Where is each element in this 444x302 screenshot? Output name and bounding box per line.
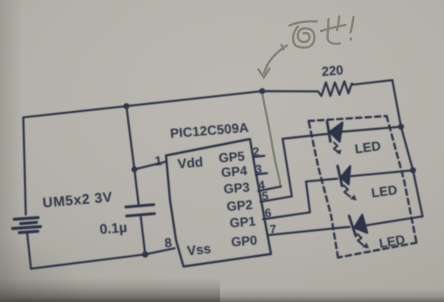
handwriting: kana せ: [321, 17, 346, 44]
battery B1 UM5x2 plates: [13, 218, 41, 233]
pencil correction line down to pin 4: [263, 95, 281, 186]
svg-text:GP1: GP1: [229, 213, 256, 230]
wire: pin 1 stub: [134, 162, 166, 170]
wire: battery bottom to bottom-left corner: [27, 234, 31, 269]
LED D3: [349, 216, 356, 236]
pin 5 stub wire to LED1: [261, 141, 292, 202]
wire: LED3 row: [346, 226, 350, 228]
dashed LED box: [309, 116, 387, 121]
svg-text:220: 220: [321, 62, 344, 79]
svg-text:GP3: GP3: [223, 179, 250, 196]
wire: LED1 row: [283, 134, 329, 141]
pin 2 stub: [254, 156, 265, 157]
wire: capacitor bottom to ground rail: [141, 217, 145, 254]
wire: bottom rail to Vss pin 8: [31, 248, 175, 268]
svg-text:GP2: GP2: [226, 197, 253, 214]
LED D1: [327, 122, 330, 142]
svg-text:GP4: GP4: [221, 163, 249, 180]
LED D2: [338, 166, 343, 186]
pin 6 stub wire to LED2: [263, 182, 310, 220]
wire: capacitor branch vertical: [126, 106, 138, 204]
handwriting: kanji 直: [282, 21, 318, 49]
junction dots: [123, 103, 129, 109]
capacitor C1 plates: [126, 205, 155, 216]
wire: left vertical down to battery: [23, 117, 26, 214]
IC U1 PIC12C509A body: [166, 139, 271, 267]
wire: top rail from top-left corner to resistor: [23, 91, 318, 117]
pin 3 stub: [256, 173, 267, 174]
svg-text:Vdd: Vdd: [177, 154, 204, 171]
pencil arrow to junction: [259, 46, 288, 78]
wire: right rail down: [392, 80, 422, 216]
handwriting: !: [351, 17, 354, 40]
resistor R 220 zigzag: [318, 81, 353, 96]
pin 4 stub: [258, 187, 281, 192]
pin 7 / GP0 wire to LED3 row: [268, 227, 346, 235]
wire: LED2 row: [306, 179, 337, 182]
svg-text:Vss: Vss: [186, 241, 211, 258]
svg-text:1: 1: [154, 153, 162, 169]
svg-text:0.1µ: 0.1µ: [99, 219, 128, 237]
wire: resistor to right rail corner: [353, 80, 392, 85]
svg-text:GP0: GP0: [231, 232, 258, 249]
